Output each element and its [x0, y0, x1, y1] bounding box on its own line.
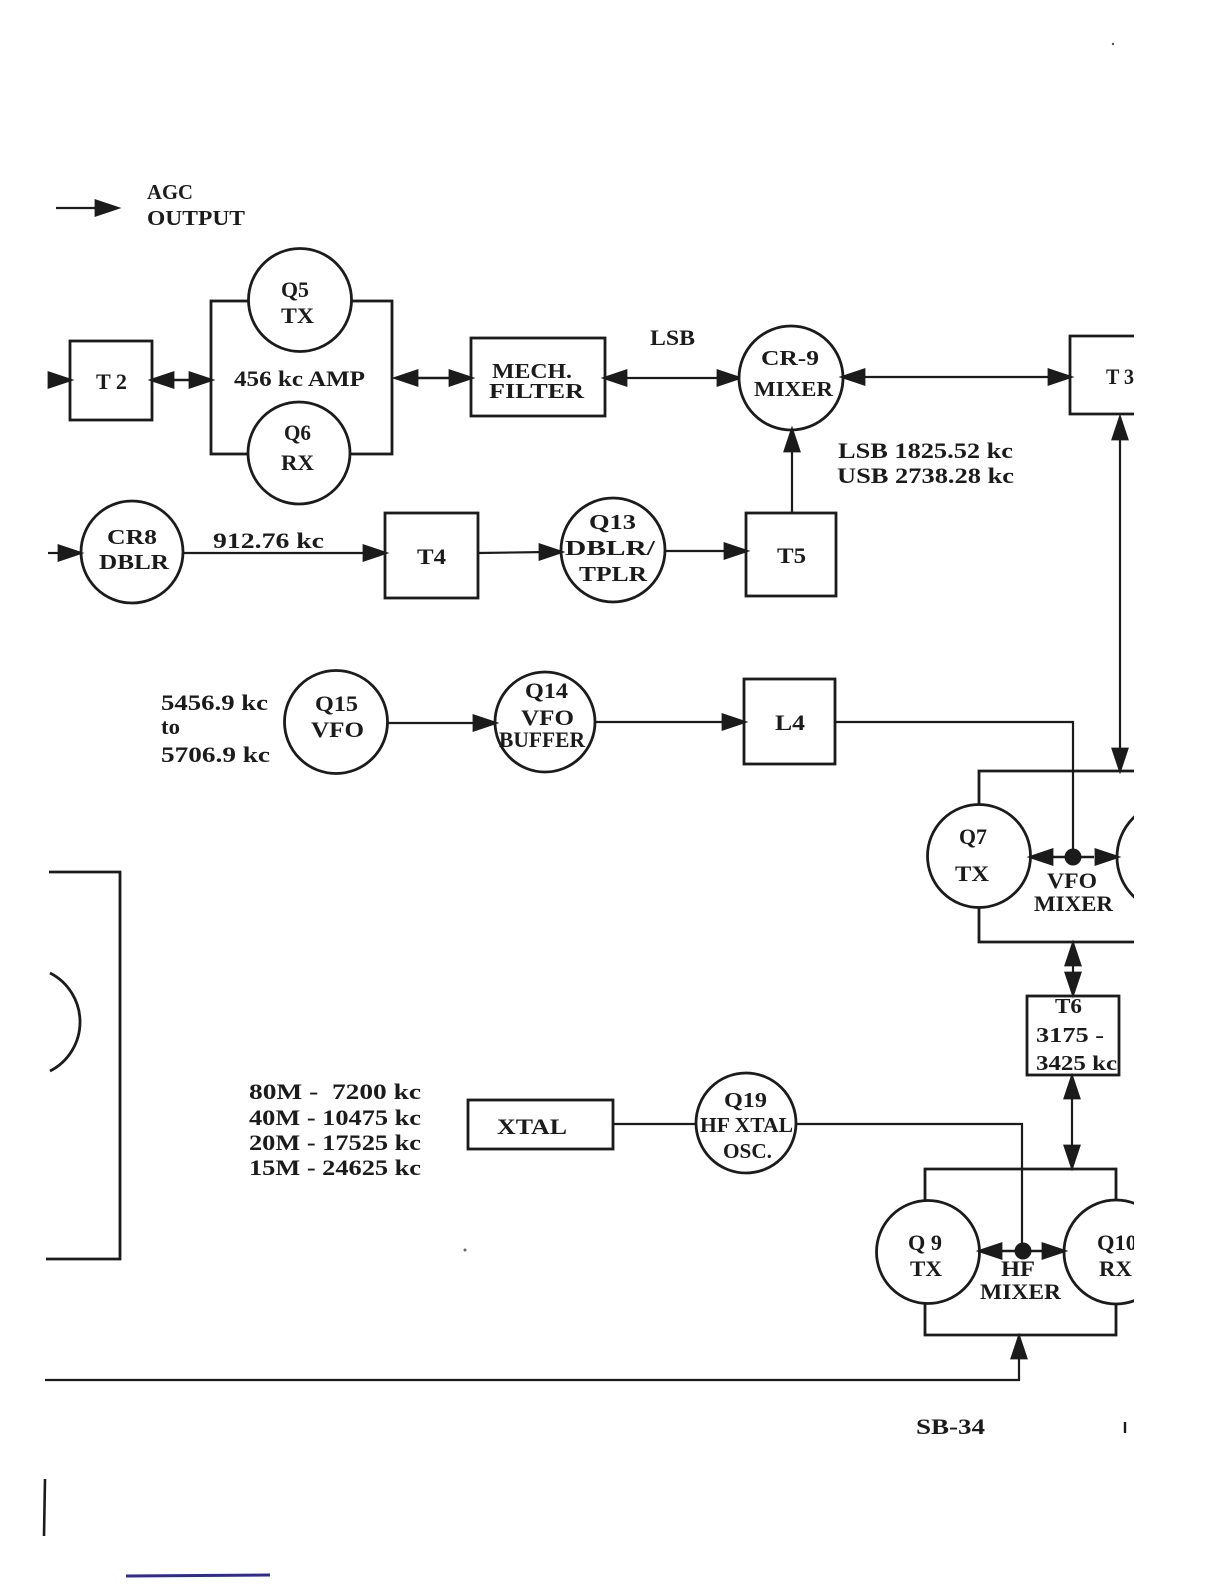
svg-text:OUTPUT: OUTPUT	[147, 206, 245, 230]
transformer T6	[1027, 994, 1119, 1075]
svg-text:MIXER: MIXER	[754, 377, 834, 401]
svg-text:VFO: VFO	[1047, 868, 1097, 893]
wire 456 AMP to MECH FILTER (double arrow)	[396, 371, 471, 385]
AGC output arrow	[56, 201, 117, 215]
svg-text:TX: TX	[910, 1256, 942, 1281]
svg-text:DBLR: DBLR	[99, 550, 170, 574]
transistor Q5 TX	[249, 249, 352, 352]
svg-text:T6: T6	[1055, 994, 1082, 1018]
wire XTAL to Q19	[613, 1123, 697, 1125]
svg-text:456 kc AMP: 456 kc AMP	[234, 366, 365, 391]
svg-text:TX: TX	[955, 861, 989, 886]
arrow into T2	[48, 373, 70, 387]
speck near HF mixer	[464, 1249, 467, 1252]
svg-text:80M - 7200 kc: 80M - 7200 kc	[249, 1079, 421, 1104]
svg-text:MIXER: MIXER	[980, 1279, 1062, 1304]
bottom feed line to HF mixer	[45, 1337, 1026, 1380]
wire Q19 to HF mixer junction	[796, 1124, 1022, 1243]
svg-text:Q 9: Q 9	[908, 1230, 942, 1255]
svg-text:Q5: Q5	[281, 277, 309, 302]
wire T3 to VFO mixer (double arrow down)	[1113, 418, 1127, 770]
svg-text:HF XTAL: HF XTAL	[700, 1113, 793, 1137]
cut page number	[1124, 1422, 1126, 1433]
svg-text:Q7: Q7	[959, 824, 987, 849]
svg-text:TX: TX	[281, 303, 314, 328]
svg-text:3425 kc: 3425 kc	[1036, 1051, 1117, 1075]
svg-text:VFO: VFO	[311, 717, 364, 742]
svg-text:L4: L4	[775, 710, 805, 735]
buffer Q14 VFO BUFFER	[495, 672, 595, 772]
oscillator Q15 VFO	[285, 671, 388, 774]
svg-text:Q10: Q10	[1097, 1230, 1137, 1255]
transformer T5	[746, 513, 836, 596]
svg-text:20M - 17525 kc: 20M - 17525 kc	[249, 1130, 421, 1155]
svg-text:T 2: T 2	[96, 369, 127, 394]
transistor Q6 RX	[248, 402, 350, 504]
wire L4 to VFO mixer junction	[835, 722, 1073, 849]
svg-text:T5: T5	[777, 543, 806, 568]
svg-text:USB 2738.28 kc: USB 2738.28 kc	[837, 463, 1014, 488]
pen mark bottom left	[44, 1479, 45, 1536]
mixer CR-9	[739, 326, 843, 430]
svg-text:Q14: Q14	[525, 678, 568, 703]
transistor Q7 TX	[928, 805, 1031, 908]
transformer T3 (cut at page edge)	[1070, 336, 1140, 414]
left partial transistor circle (cut)	[50, 973, 80, 1071]
MECH FILTER block	[471, 338, 605, 416]
svg-text:15M - 24625 kc: 15M - 24625 kc	[249, 1155, 421, 1180]
wire T5 to CR-9 (arrow up)	[785, 430, 799, 513]
LSB USB injection frequency labels	[837, 438, 1014, 488]
transformer T2	[70, 341, 152, 420]
wire CR-9 to T3 (double arrow)	[843, 370, 1070, 384]
HF MIXER block	[925, 1169, 1116, 1335]
svg-text:RX: RX	[281, 450, 314, 475]
svg-text:TPLR: TPLR	[579, 562, 648, 586]
AGC OUTPUT label	[147, 180, 245, 230]
svg-text:Q13: Q13	[589, 510, 636, 534]
456 kc AMP block	[211, 301, 392, 454]
transformer T4	[385, 513, 478, 598]
svg-text:Q6: Q6	[284, 420, 311, 445]
svg-text:5456.9 kc: 5456.9 kc	[161, 690, 268, 715]
svg-text:XTAL: XTAL	[497, 1114, 567, 1139]
svg-text:Q19: Q19	[724, 1088, 767, 1112]
svg-text:LSB 1825.52 kc: LSB 1825.52 kc	[838, 438, 1013, 463]
svg-text:BUFFER: BUFFER	[499, 727, 586, 752]
svg-text:3175 -: 3175 -	[1036, 1023, 1104, 1047]
svg-text:RX: RX	[1099, 1256, 1132, 1281]
arrow into CR8	[48, 546, 80, 560]
svg-text:AGC: AGC	[147, 180, 193, 204]
svg-text:T 3: T 3	[1106, 364, 1134, 389]
wire MECH FILTER to CR-9 (double arrow)	[605, 371, 739, 385]
inductor L4	[744, 679, 835, 764]
crystal band list label	[249, 1079, 421, 1180]
svg-text:HF: HF	[1001, 1256, 1035, 1281]
VFO range label	[161, 690, 270, 767]
wire Q14 to L4	[595, 715, 744, 729]
transistor Q13 DBLR/TPLR	[561, 498, 665, 602]
speck top right	[1112, 43, 1114, 45]
svg-text:FILTER: FILTER	[489, 379, 585, 403]
junction node HF mixer with arrows	[980, 1243, 1064, 1260]
svg-text:912.76 kc: 912.76 kc	[213, 528, 324, 553]
junction node VFO mixer with arrows	[1031, 849, 1117, 866]
oscillator Q19 HF XTAL OSC	[696, 1073, 796, 1173]
svg-text:OSC.: OSC.	[723, 1139, 772, 1163]
doubler CR8	[81, 501, 183, 603]
svg-text:DBLR/: DBLR/	[565, 536, 657, 560]
svg-text:MIXER: MIXER	[1034, 891, 1114, 916]
left partial block (cut at page edge)	[46, 872, 120, 1259]
svg-text:CR8: CR8	[107, 525, 157, 549]
page edge white mask	[1134, 0, 1224, 1584]
transistor Q8 RX (cut at page edge)	[1117, 802, 1224, 912]
svg-text:T4: T4	[417, 544, 446, 569]
wire VFO mixer to T6 (double arrow)	[1066, 944, 1080, 994]
transistor Q10 RX (cut at page edge)	[1064, 1200, 1168, 1304]
VFO MIXER block	[979, 771, 1140, 942]
wire T4 to Q13	[478, 545, 561, 559]
blue pen underline	[126, 1575, 270, 1576]
svg-text:Q15: Q15	[315, 691, 358, 716]
wire Q15 to Q14	[388, 716, 495, 730]
wire CR8 to T4	[183, 546, 385, 560]
XTAL block	[468, 1100, 613, 1149]
wire T2 to 456 kc AMP (double arrow)	[152, 373, 211, 387]
svg-text:LSB: LSB	[650, 325, 695, 350]
svg-text:to: to	[161, 714, 180, 739]
transistor Q9 TX	[877, 1201, 980, 1304]
svg-text:CR-9: CR-9	[761, 346, 819, 370]
wire Q13 to T5	[665, 544, 746, 558]
svg-text:SB-34: SB-34	[916, 1414, 985, 1439]
svg-text:40M - 10475 kc: 40M - 10475 kc	[249, 1105, 421, 1130]
svg-text:5706.9 kc: 5706.9 kc	[161, 742, 270, 767]
wire T6 to HF mixer (double arrow)	[1065, 1077, 1079, 1167]
